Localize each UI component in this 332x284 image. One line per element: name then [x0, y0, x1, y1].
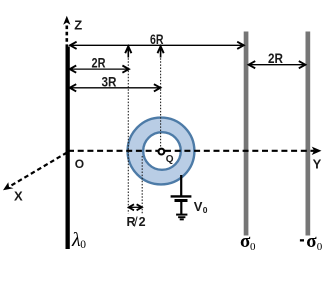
extension line at inner radius (dotted vertical) — [141, 156, 143, 214]
svg-text:σ: σ — [306, 231, 317, 252]
svg-text:O: O — [75, 157, 84, 171]
dimension 2R (between planes) — [249, 61, 306, 68]
line charge lambda0 (thick vertical line) — [66, 47, 70, 250]
label Z — [74, 18, 82, 33]
plane sigma0 (left gray bar) — [244, 32, 249, 236]
svg-text:V: V — [194, 199, 203, 214]
dimension R/2 — [129, 204, 142, 210]
ground — [176, 215, 187, 220]
axis X (dashed) — [3, 153, 67, 191]
svg-text:2: 2 — [139, 215, 146, 229]
svg-text:Y: Y — [313, 156, 322, 171]
svg-text:Z: Z — [74, 18, 82, 33]
svg-text:X: X — [14, 189, 23, 204]
extension line at 3R / ring center (dotted vertical, up arrow) — [158, 46, 164, 147]
svg-text:6R: 6R — [150, 31, 164, 47]
extension line at 2R (dotted vertical, up arrow) — [125, 46, 131, 213]
svg-text:3R: 3R — [102, 73, 117, 89]
label -sigma0 — [300, 231, 323, 253]
svg-text:0: 0 — [80, 239, 86, 251]
label sigma0 — [240, 231, 256, 253]
axis Y (dashed) — [68, 147, 322, 155]
dimension 6R — [70, 42, 244, 49]
svg-text:/: / — [134, 215, 138, 230]
svg-text:2R: 2R — [92, 55, 106, 71]
point charge Q — [159, 149, 165, 155]
value label 2R — [92, 55, 106, 71]
dimension 2R (lambda to 2R mark) — [70, 66, 129, 73]
value label R/2 — [127, 215, 146, 230]
value label 3R — [102, 73, 117, 89]
label lambda0 — [71, 229, 86, 251]
svg-text:0: 0 — [317, 241, 323, 253]
svg-text:Q: Q — [166, 154, 174, 165]
value label 6R — [150, 31, 164, 47]
svg-text:0: 0 — [203, 205, 208, 215]
value label V0 — [194, 199, 208, 215]
battery V0 — [171, 196, 192, 200]
label Q — [166, 154, 174, 165]
value label 2R (planes gap) — [268, 50, 283, 66]
wire from ring to battery — [180, 175, 182, 196]
label X — [14, 189, 23, 204]
label O (origin) — [75, 157, 84, 171]
dimension 3R — [70, 84, 161, 91]
plane -sigma0 (right gray bar) — [306, 32, 311, 236]
shell: charged annulus ring — [128, 118, 195, 185]
svg-text:2R: 2R — [268, 50, 283, 66]
axis Z (dashed) — [63, 16, 70, 48]
label Y — [313, 156, 322, 171]
svg-text:0: 0 — [250, 241, 256, 253]
wire from battery to ground — [180, 201, 182, 215]
